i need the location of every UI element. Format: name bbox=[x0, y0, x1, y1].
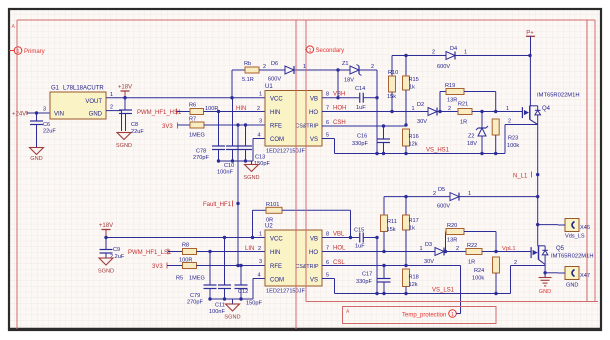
svg-text:7: 7 bbox=[326, 106, 329, 112]
svg-text:VS: VS bbox=[310, 278, 318, 284]
capacitor C16 bbox=[352, 126, 390, 155]
diode D4 bbox=[432, 46, 467, 70]
pin 3 U1 bbox=[259, 119, 262, 125]
wire R7 to U1 RFE bbox=[204, 124, 265, 126]
svg-text:PWM_HF1_LS1: PWM_HF1_LS1 bbox=[128, 250, 172, 256]
svg-text:13R: 13R bbox=[447, 238, 457, 244]
svg-text:1MEG: 1MEG bbox=[189, 276, 205, 282]
svg-text:Q4: Q4 bbox=[542, 106, 551, 112]
resistor R11 bbox=[381, 215, 397, 253]
net label HOH bbox=[333, 106, 346, 112]
wire U2 CS line bbox=[322, 264, 461, 267]
svg-text:U1: U1 bbox=[265, 84, 273, 90]
wire U2 COM down bbox=[253, 273, 265, 300]
capacitor C12 bbox=[235, 266, 263, 307]
node C11 tap bbox=[223, 236, 226, 239]
node Fault junction bbox=[236, 202, 239, 205]
svg-text:R8: R8 bbox=[182, 243, 189, 249]
svg-text:1MEG: 1MEG bbox=[189, 133, 205, 139]
node C13 tap bbox=[244, 123, 247, 126]
diode D5 bbox=[433, 187, 471, 210]
ground SGND HS bbox=[243, 161, 259, 181]
ground SGND LS bbox=[224, 299, 240, 321]
node N_L1 junction bbox=[536, 173, 539, 176]
svg-text:1: 1 bbox=[451, 312, 454, 318]
svg-text:C12: C12 bbox=[238, 289, 248, 295]
zener Z1 bbox=[342, 61, 362, 84]
svg-text:8: 8 bbox=[326, 232, 329, 238]
svg-text:CS&TRIP: CS&TRIP bbox=[296, 264, 319, 270]
svg-text:D2: D2 bbox=[417, 102, 424, 108]
svg-text:1ED2127150JF: 1ED2127150JF bbox=[266, 149, 305, 155]
wire C14 to column bbox=[363, 96, 378, 99]
wire D4 to P+ column bbox=[455, 54, 532, 57]
svg-text:3V3: 3V3 bbox=[162, 124, 173, 130]
svg-text:600V: 600V bbox=[437, 64, 450, 70]
wire PWM LS to R8 bbox=[168, 251, 183, 253]
svg-text:VpL1: VpL1 bbox=[502, 246, 516, 252]
wire D6 to Z1 node bbox=[294, 64, 350, 72]
svg-text:600V: 600V bbox=[437, 204, 450, 210]
svg-text:R23: R23 bbox=[508, 136, 518, 142]
svg-text:C14: C14 bbox=[355, 86, 365, 92]
node fault column top bbox=[236, 123, 239, 126]
svg-text:22uF: 22uF bbox=[131, 129, 144, 135]
svg-text:C6: C6 bbox=[43, 122, 50, 128]
svg-text:600V: 600V bbox=[268, 77, 281, 83]
wire U1 COM down bbox=[253, 133, 265, 162]
blanket Temp_protection region bbox=[343, 307, 497, 324]
pin 8 U2 bbox=[326, 232, 329, 238]
wire D3 to R22 bbox=[444, 246, 466, 252]
resistor Rb bbox=[230, 61, 259, 99]
capacitor C6 bbox=[30, 113, 56, 148]
wire VS_LS1 bus bbox=[335, 293, 511, 295]
svg-text:VBL: VBL bbox=[333, 232, 345, 238]
svg-text:R5: R5 bbox=[176, 276, 183, 282]
svg-text:VCC: VCC bbox=[270, 236, 283, 242]
node fault column bottom bbox=[236, 264, 239, 267]
svg-text:100k: 100k bbox=[472, 276, 484, 282]
svg-text:1: 1 bbox=[259, 92, 262, 98]
svg-text:VB: VB bbox=[310, 236, 318, 242]
power +18V LS bbox=[99, 223, 113, 238]
svg-text:R15: R15 bbox=[409, 77, 419, 83]
capacitor C9 bbox=[100, 238, 125, 261]
transistor Q5 bbox=[531, 246, 565, 265]
svg-text:VS_LS1: VS_LS1 bbox=[432, 288, 455, 294]
svg-text:VIN: VIN bbox=[54, 112, 64, 118]
resistor R101 bbox=[251, 202, 282, 239]
svg-text:D6: D6 bbox=[271, 61, 278, 67]
svg-text:R17: R17 bbox=[409, 218, 419, 224]
resistor R18 bbox=[403, 269, 419, 295]
svg-text:GND: GND bbox=[30, 156, 42, 162]
svg-text:L78L18ACUTR: L78L18ACUTR bbox=[63, 86, 104, 92]
svg-text:Temp_protection: Temp_protection bbox=[402, 313, 446, 319]
connector X46 bbox=[558, 219, 590, 232]
svg-text:C17: C17 bbox=[362, 272, 372, 278]
capacitor C13 bbox=[239, 125, 270, 167]
svg-text:22uF: 22uF bbox=[43, 129, 56, 135]
svg-text:PWM_HF1_HS1: PWM_HF1_HS1 bbox=[137, 110, 182, 116]
svg-text:+24V: +24V bbox=[12, 112, 26, 118]
svg-text:R6: R6 bbox=[189, 103, 196, 109]
capacitor C79 bbox=[187, 252, 217, 306]
svg-text:CS&TRIP: CS&TRIP bbox=[296, 124, 319, 130]
capacitor C8 bbox=[119, 98, 144, 135]
wire Q5 kelvin source bbox=[511, 260, 546, 294]
wire SGND bus LS bbox=[208, 297, 253, 300]
svg-text:VS_HS1: VS_HS1 bbox=[426, 148, 450, 154]
svg-text:12k: 12k bbox=[409, 282, 418, 288]
capacitor C10 bbox=[217, 98, 239, 176]
blanket Primary region right edge bbox=[295, 20, 297, 329]
resistor R15 bbox=[403, 76, 419, 127]
svg-text:SGND: SGND bbox=[98, 269, 114, 275]
port Primary bbox=[9, 47, 45, 55]
wire +24V to VIN bbox=[27, 112, 50, 114]
diode D2 bbox=[412, 102, 438, 125]
svg-text:15k: 15k bbox=[387, 94, 396, 100]
net label CSL bbox=[333, 260, 345, 266]
svg-text:SGND: SGND bbox=[243, 175, 259, 181]
op-amp U1 gate driver bbox=[265, 84, 322, 155]
svg-text:8: 8 bbox=[326, 92, 329, 98]
svg-text:R20: R20 bbox=[447, 223, 457, 229]
wire U1 VB line bbox=[322, 97, 359, 99]
ground SGND under C8 bbox=[116, 133, 132, 150]
ground GND earth under Q5 bbox=[539, 273, 552, 295]
wire 3V3 LS to R5 bbox=[167, 265, 183, 267]
wire U1 HO line bbox=[322, 110, 442, 113]
port Temp_protection bbox=[402, 310, 461, 319]
svg-text:1uF: 1uF bbox=[356, 105, 366, 111]
pin 3 G1 VIN bbox=[43, 107, 46, 113]
svg-text:2: 2 bbox=[448, 106, 451, 112]
svg-text:3: 3 bbox=[259, 259, 262, 265]
net label LIN bbox=[245, 246, 261, 252]
label Q5 partnumber bbox=[551, 254, 594, 260]
node +18V LS junction bbox=[104, 236, 107, 239]
svg-text:30V: 30V bbox=[424, 259, 434, 265]
wire R6 to U1 HIN bbox=[204, 111, 266, 113]
svg-text:+18V: +18V bbox=[118, 85, 132, 91]
svg-text:C79: C79 bbox=[190, 293, 200, 299]
wire PWM to R6 bbox=[177, 111, 191, 113]
svg-text:HOH: HOH bbox=[333, 106, 346, 112]
svg-text:R21: R21 bbox=[458, 102, 468, 108]
wire X46 to N node bbox=[536, 223, 558, 226]
svg-text:R11: R11 bbox=[387, 219, 397, 225]
wire D4 anode rail bbox=[392, 54, 446, 76]
ground GND left bbox=[30, 148, 44, 163]
svg-text:1: 1 bbox=[259, 232, 262, 238]
net label PWM_HF1_HS1 bbox=[137, 109, 182, 117]
node C79 tap bbox=[208, 250, 211, 253]
resistor R20 bbox=[446, 223, 497, 252]
svg-text:5: 5 bbox=[326, 133, 329, 139]
svg-text:2: 2 bbox=[514, 260, 517, 266]
svg-text:HIN: HIN bbox=[270, 250, 280, 256]
power +24V bbox=[12, 111, 27, 118]
svg-text:6: 6 bbox=[326, 120, 329, 126]
svg-text:2: 2 bbox=[257, 106, 260, 112]
op-amp U2 gate driver bbox=[265, 224, 322, 295]
svg-text:1R: 1R bbox=[468, 260, 475, 266]
net label VBH bbox=[333, 92, 345, 98]
wire RFE fault bus bbox=[237, 125, 239, 266]
svg-text:C8: C8 bbox=[131, 122, 138, 128]
wire VBL-VS column bbox=[375, 238, 378, 296]
svg-text:2: 2 bbox=[508, 119, 511, 125]
wire Q4 source to N_L1 bbox=[537, 125, 539, 246]
resistor R22 bbox=[466, 243, 482, 266]
connector X47 bbox=[558, 267, 590, 280]
svg-text:R7: R7 bbox=[189, 117, 196, 123]
svg-text:1: 1 bbox=[110, 92, 113, 98]
svg-text:SGND: SGND bbox=[116, 143, 132, 149]
wire U2 VS down bbox=[322, 279, 335, 294]
wire Rb to D6 bbox=[259, 64, 285, 70]
wire G1 VOUT to +18V node bbox=[106, 92, 265, 98]
svg-text:C13: C13 bbox=[255, 155, 265, 161]
svg-text:1: 1 bbox=[412, 106, 415, 112]
svg-text:HO: HO bbox=[309, 110, 318, 116]
resistor R21 bbox=[458, 102, 472, 126]
wire D5 to N column bbox=[459, 195, 539, 198]
svg-text:R19: R19 bbox=[445, 83, 455, 89]
ground SGND under C9 bbox=[98, 258, 114, 275]
svg-text:GND: GND bbox=[89, 112, 103, 118]
wire Q5 source to GND bbox=[543, 265, 558, 275]
capacitor C15 bbox=[354, 228, 365, 250]
net label Fault_HF1 bbox=[203, 201, 233, 209]
svg-text:C10: C10 bbox=[224, 163, 234, 169]
capacitor C11 bbox=[209, 238, 231, 316]
svg-text:COM: COM bbox=[270, 137, 284, 143]
svg-text:HOL: HOL bbox=[333, 246, 346, 252]
wire Q4 kelvin source bbox=[505, 119, 538, 154]
svg-text:1R: 1R bbox=[460, 120, 467, 126]
svg-text:Secondary: Secondary bbox=[316, 48, 345, 54]
power +18V HS bbox=[118, 85, 132, 98]
wire R101 to VBL bbox=[282, 210, 352, 239]
svg-text:15k: 15k bbox=[387, 227, 396, 233]
svg-text:Q5: Q5 bbox=[556, 246, 565, 252]
svg-text:2: 2 bbox=[456, 246, 459, 252]
svg-text:CSH: CSH bbox=[333, 120, 346, 126]
wire temp column bbox=[460, 266, 462, 314]
node C6 junction bbox=[35, 111, 38, 114]
svg-text:12k: 12k bbox=[409, 142, 418, 148]
svg-text:270pF: 270pF bbox=[187, 300, 203, 306]
resistor R19 bbox=[440, 83, 496, 112]
svg-text:1uF: 1uF bbox=[355, 244, 365, 250]
wire +18V LS to U2 VCC bbox=[106, 237, 265, 239]
svg-text:330pF: 330pF bbox=[356, 279, 372, 285]
svg-text:LIN: LIN bbox=[245, 246, 254, 252]
resistor R10 bbox=[387, 70, 398, 113]
svg-text:18V: 18V bbox=[344, 78, 354, 84]
svg-text:VS: VS bbox=[310, 137, 318, 143]
svg-text:D5: D5 bbox=[438, 187, 445, 193]
wire Q4 drain bbox=[529, 56, 531, 106]
svg-text:R101: R101 bbox=[266, 202, 279, 208]
pin 3 U2 bbox=[259, 259, 262, 265]
svg-text:Z1: Z1 bbox=[342, 61, 349, 67]
svg-text:C11: C11 bbox=[215, 303, 225, 309]
resistor R17 bbox=[403, 215, 419, 267]
net label PWM_HF1_LS1 bbox=[128, 249, 172, 257]
svg-text:VB: VB bbox=[310, 96, 318, 102]
pin 6 U1 bbox=[326, 120, 329, 126]
svg-text:3: 3 bbox=[43, 107, 46, 113]
svg-text:1k: 1k bbox=[409, 85, 415, 91]
resistor R6 bbox=[189, 103, 218, 115]
svg-text:+18V: +18V bbox=[99, 223, 113, 229]
svg-text:1: 1 bbox=[506, 106, 509, 112]
wire D6 node to VB line bbox=[336, 70, 339, 99]
svg-text:4: 4 bbox=[258, 273, 261, 279]
svg-text:270pF: 270pF bbox=[193, 155, 209, 161]
pin 5 U2 bbox=[326, 273, 329, 279]
svg-text:100nF: 100nF bbox=[217, 170, 233, 176]
net label GND X47 bbox=[566, 283, 578, 289]
svg-text:C16: C16 bbox=[357, 134, 367, 140]
svg-text:U2: U2 bbox=[265, 224, 273, 230]
wire D2 to R21 bbox=[437, 106, 458, 112]
wire C15 to VS column bbox=[363, 236, 378, 239]
svg-text:3V3: 3V3 bbox=[152, 264, 163, 270]
blanket Secondary region bbox=[306, 20, 598, 302]
svg-text:G1: G1 bbox=[51, 86, 60, 92]
svg-text:HIN: HIN bbox=[236, 106, 246, 112]
net label Vds_LS bbox=[565, 234, 585, 240]
capacitor C14 bbox=[355, 86, 366, 111]
svg-text:3: 3 bbox=[259, 119, 262, 125]
wire VB-VS column bbox=[375, 70, 378, 155]
wire R8 to U2 HIN bbox=[197, 251, 266, 253]
svg-text:IMT65R022M1H: IMT65R022M1H bbox=[537, 93, 580, 99]
net label N_L1 bbox=[513, 172, 532, 180]
regulator G1 bbox=[50, 86, 106, 120]
svg-text:D3: D3 bbox=[425, 242, 432, 248]
net label VBL bbox=[333, 232, 345, 238]
node C78 tap bbox=[217, 110, 220, 113]
svg-text:X47: X47 bbox=[580, 273, 590, 279]
svg-text:150pF: 150pF bbox=[246, 301, 262, 307]
svg-text:100nF: 100nF bbox=[209, 309, 225, 315]
svg-text:100k: 100k bbox=[507, 143, 519, 149]
node C12 tap bbox=[239, 264, 242, 267]
svg-text:R16: R16 bbox=[409, 134, 419, 140]
wire U1 CS line bbox=[322, 124, 406, 127]
transistor Q4 bbox=[522, 106, 550, 125]
svg-text:RFE: RFE bbox=[270, 124, 282, 130]
svg-text:2: 2 bbox=[258, 246, 261, 252]
wire U2 VB line bbox=[322, 237, 359, 239]
svg-text:Fault_HF1: Fault_HF1 bbox=[203, 202, 232, 208]
wire VS_HS1 bus bbox=[335, 153, 506, 155]
resistor R8 bbox=[179, 243, 197, 264]
svg-text:1ED2127150JF: 1ED2127150JF bbox=[266, 289, 305, 295]
pin 2 G1 GND wire bbox=[106, 105, 122, 132]
svg-text:D4: D4 bbox=[450, 46, 457, 52]
net label CSH bbox=[333, 120, 346, 126]
net label HOL bbox=[333, 246, 346, 252]
pin 5 U1 bbox=[326, 133, 329, 139]
svg-text:C9: C9 bbox=[113, 247, 120, 253]
svg-text:5: 5 bbox=[326, 273, 329, 279]
zener Z2 bbox=[467, 112, 488, 156]
net label 3V3 LS bbox=[152, 263, 167, 271]
resistor R16 bbox=[403, 129, 419, 155]
svg-text:2: 2 bbox=[371, 64, 374, 70]
pin 1 U1 bbox=[259, 92, 262, 98]
port Secondary bbox=[305, 46, 344, 54]
svg-text:COM: COM bbox=[270, 278, 284, 284]
svg-text:R24: R24 bbox=[474, 268, 484, 274]
net label VpL1 bbox=[502, 246, 516, 252]
svg-text:13R: 13R bbox=[447, 98, 457, 104]
svg-text:X46: X46 bbox=[580, 225, 590, 231]
node +18V junction bbox=[123, 96, 126, 99]
label Q4 partnumber bbox=[537, 93, 580, 99]
wire U2 HO line bbox=[322, 250, 447, 253]
svg-text:30V: 30V bbox=[417, 119, 427, 125]
svg-text:Z2: Z2 bbox=[468, 134, 475, 140]
svg-text:Primary: Primary bbox=[24, 49, 45, 55]
pin 8 U1 bbox=[326, 92, 329, 98]
resistor R7 bbox=[189, 117, 205, 139]
svg-text:18V: 18V bbox=[467, 141, 477, 147]
svg-text:Rb: Rb bbox=[244, 61, 251, 67]
svg-text:R18: R18 bbox=[409, 275, 419, 281]
svg-text:1: 1 bbox=[464, 50, 467, 56]
wire R5 to U2 RFE bbox=[197, 265, 266, 267]
svg-text:P+: P+ bbox=[526, 31, 534, 37]
svg-text:R10: R10 bbox=[388, 70, 398, 76]
svg-text:SGND: SGND bbox=[224, 315, 240, 321]
capacitor C17 bbox=[356, 266, 391, 296]
svg-text:C78: C78 bbox=[196, 149, 206, 155]
svg-text:2: 2 bbox=[110, 105, 113, 111]
svg-text:RFE: RFE bbox=[270, 264, 282, 270]
svg-text:7: 7 bbox=[326, 246, 329, 252]
net label VS_HS1 bbox=[426, 148, 450, 154]
svg-text:N_L1: N_L1 bbox=[513, 174, 528, 180]
svg-text:2: 2 bbox=[433, 191, 436, 197]
svg-text:2: 2 bbox=[432, 50, 435, 56]
wire R21 to Q4 gate bbox=[472, 106, 522, 113]
svg-text:HO: HO bbox=[309, 250, 318, 256]
power P+ bbox=[526, 31, 535, 56]
resistor R23 bbox=[492, 119, 519, 155]
wire Z1 to VB-VS column bbox=[359, 64, 377, 70]
svg-text:330pF: 330pF bbox=[352, 141, 368, 147]
svg-text:GND: GND bbox=[566, 283, 578, 289]
wire R22 to Q5 gate bbox=[482, 250, 531, 253]
wire D5 anode rail bbox=[384, 195, 450, 215]
pin 1 U2 bbox=[259, 232, 262, 238]
svg-text:4: 4 bbox=[258, 133, 261, 139]
svg-text:HIN: HIN bbox=[270, 110, 280, 116]
resistor R5 bbox=[176, 263, 205, 282]
svg-text:VOUT: VOUT bbox=[85, 99, 102, 105]
pin 7 U2 bbox=[326, 246, 329, 252]
svg-text:2: 2 bbox=[263, 64, 266, 70]
